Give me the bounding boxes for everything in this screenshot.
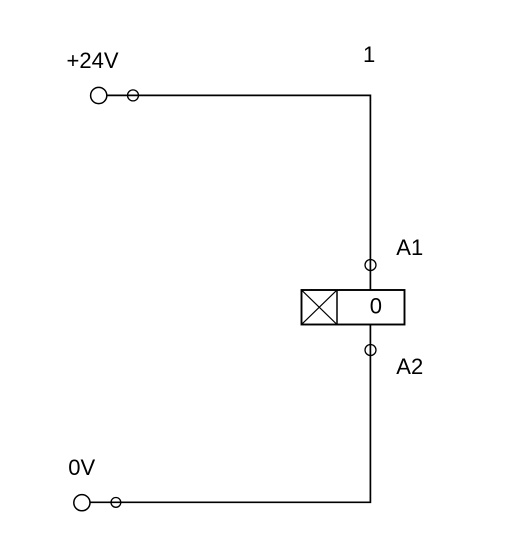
svg-text:A1: A1 xyxy=(396,235,423,260)
svg-text:+24V: +24V xyxy=(67,48,119,73)
svg-text:A2: A2 xyxy=(396,354,423,379)
svg-text:0: 0 xyxy=(370,294,382,319)
svg-text:0V: 0V xyxy=(68,455,95,480)
svg-text:1: 1 xyxy=(363,42,375,67)
